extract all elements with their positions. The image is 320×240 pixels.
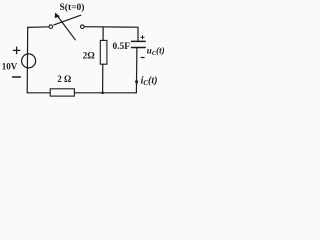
- svg-text:uC(t): uC(t): [147, 46, 165, 58]
- wire bottom right segment: [74, 92, 136, 94]
- wire top-right segment with corner down to capacitor: [84, 27, 138, 42]
- label + of source: [13, 47, 19, 53]
- label - of source: [13, 76, 21, 78]
- switch S actuation arrow: [55, 13, 76, 40]
- wire resistor branch bottom: [102, 64, 104, 93]
- svg-text:10V: 10V: [2, 62, 18, 72]
- svg-text:S(t=0): S(t=0): [60, 2, 85, 13]
- junction resistor/bottom wire: [101, 92, 104, 95]
- wire top-left segment: [28, 26, 49, 29]
- wire resistor branch top: [102, 27, 104, 40]
- svg-text:2Ω: 2Ω: [83, 51, 96, 61]
- resistor 2ohm horizontal body: [50, 89, 74, 96]
- wire capacitor to bottom: [135, 48, 138, 93]
- label + of capacitor: [141, 36, 144, 39]
- wire left vertical (source branch): [26, 27, 29, 92]
- capacitor 0.5F bottom plate: [132, 47, 146, 49]
- switch S left terminal: [49, 25, 53, 29]
- current arrow iC down: [135, 81, 139, 86]
- label - of capacitor: [141, 57, 144, 59]
- voltage source 10V circle: [22, 54, 36, 68]
- svg-text:iC(t): iC(t): [141, 76, 158, 88]
- svg-text:2 Ω: 2 Ω: [57, 74, 71, 84]
- capacitor 0.5F top plate: [132, 40, 146, 42]
- svg-text:0.5F: 0.5F: [113, 42, 131, 52]
- switch S right terminal: [81, 25, 85, 29]
- resistor 2ohm vertical body: [100, 40, 107, 64]
- switch S blade: [54, 15, 81, 25]
- wire bottom left segment: [27, 92, 50, 94]
